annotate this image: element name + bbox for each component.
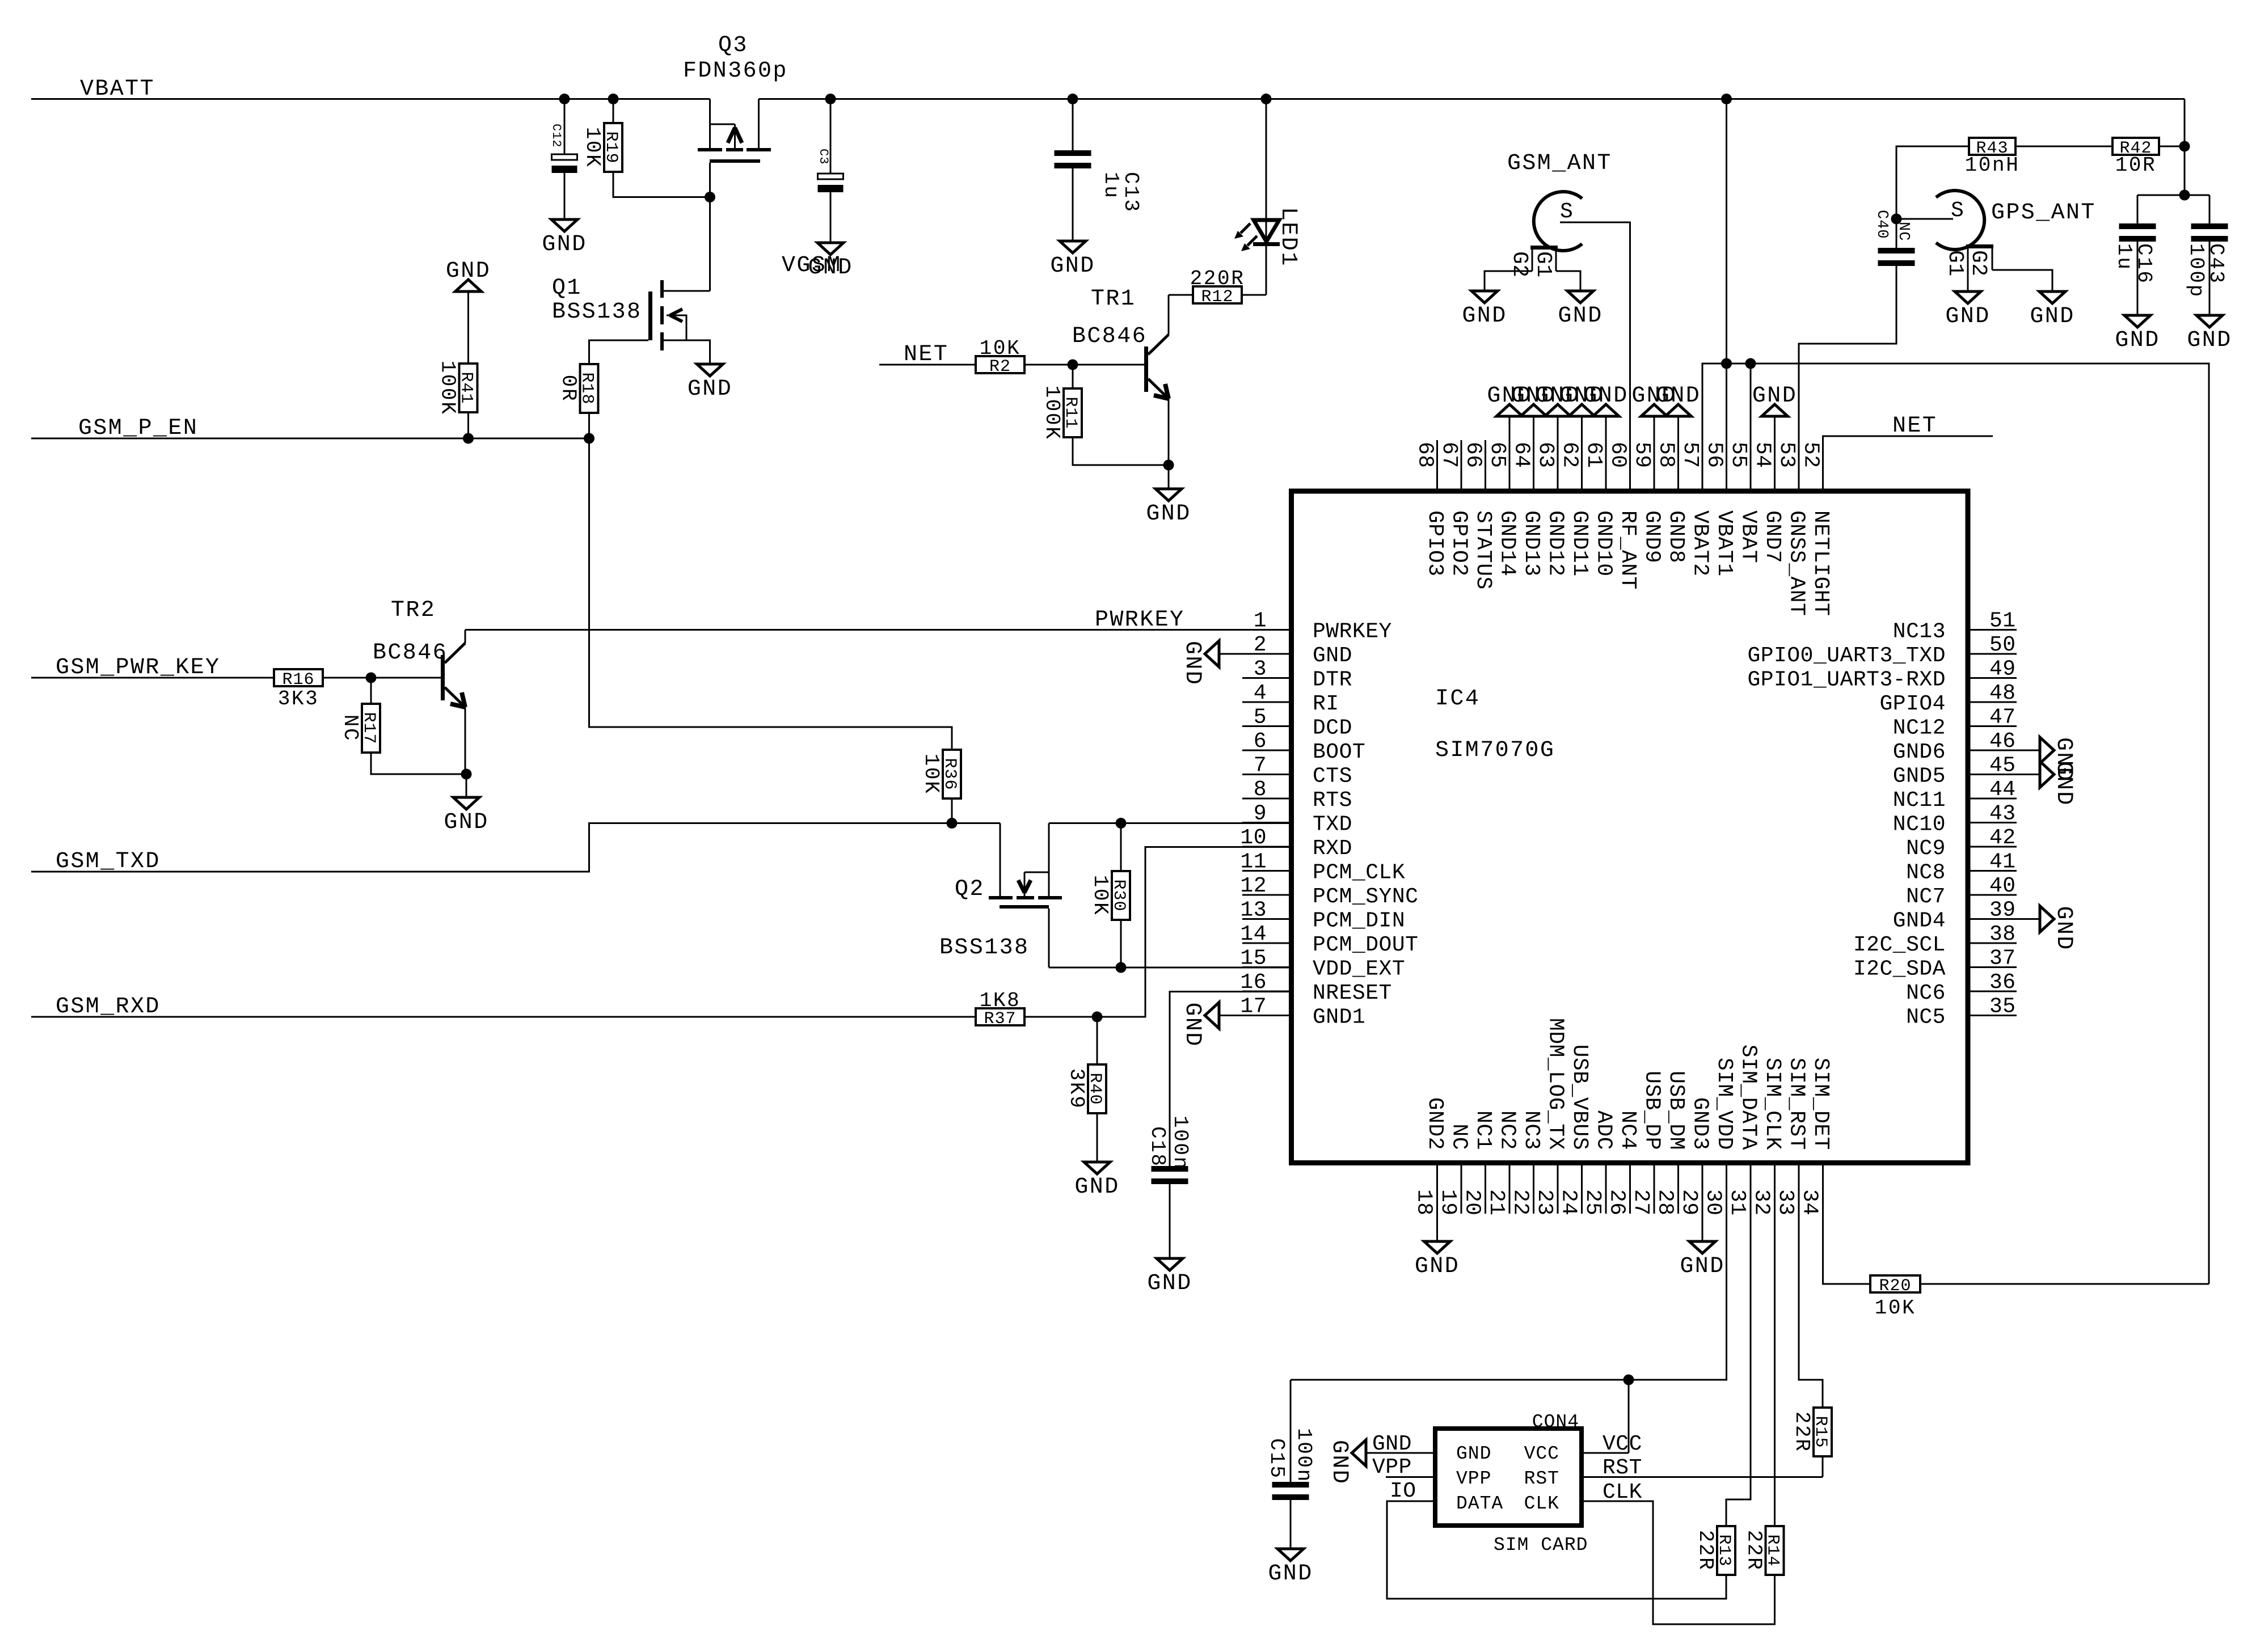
svg-text:GND9: GND9 (1640, 510, 1664, 563)
junction R37-R40 (1092, 1012, 1103, 1023)
svg-text:VDD_EXT: VDD_EXT (1313, 957, 1405, 982)
wire pin55 to VBAT line (1750, 364, 1752, 440)
ground pin 46 GND6 (right) (2017, 750, 2040, 751)
svg-text:SIM_VDD: SIM_VDD (1712, 1058, 1736, 1150)
svg-text:GSM_ANT: GSM_ANT (1507, 151, 1612, 176)
svg-text:NRESET: NRESET (1313, 981, 1392, 1005)
svg-text:I2C_SCL: I2C_SCL (1853, 933, 1946, 957)
svg-text:25: 25 (1580, 1189, 1605, 1216)
svg-text:FDN360p: FDN360p (683, 58, 788, 84)
resistor R17 (370, 678, 372, 704)
svg-text:PCM_SYNC: PCM_SYNC (1313, 885, 1418, 909)
wire GSM_ANT S to RF_ANT pin 60 (1560, 222, 1630, 440)
ground C18 (1157, 1258, 1183, 1270)
svg-text:24: 24 (1557, 1189, 1581, 1216)
antenna GSM_ANT (1534, 192, 1582, 251)
svg-text:VCC: VCC (1603, 1432, 1642, 1456)
svg-text:VBATT: VBATT (80, 77, 155, 102)
svg-text:21: 21 (1484, 1189, 1508, 1216)
svg-text:34: 34 (1798, 1189, 1822, 1216)
junction C16/C43 node (2179, 190, 2190, 201)
resistor R42 (2112, 138, 2159, 155)
svg-text:C13: C13 (1119, 172, 1142, 213)
svg-text:36: 36 (1989, 970, 2016, 995)
wire GSM_ANT G1 to ground (1556, 271, 1580, 291)
pin 28 USB_DM (IC4 bottom) (1677, 1163, 1679, 1214)
svg-text:6: 6 (1254, 729, 1267, 754)
svg-text:C3: C3 (816, 149, 830, 164)
wire VBATT drop to VBAT pins (1726, 99, 1727, 364)
resistor R20 (1870, 1275, 1920, 1292)
pin 10 RXD (IC4 left) (1242, 846, 1292, 848)
svg-text:47: 47 (1989, 705, 2016, 730)
svg-text:GND: GND (1147, 1271, 1192, 1296)
svg-text:CLK: CLK (1603, 1480, 1642, 1505)
svg-text:23: 23 (1532, 1189, 1557, 1216)
ground pin 29 GND3 (bottom) (1702, 1214, 1703, 1241)
svg-text:GND: GND (1415, 1254, 1460, 1279)
capacitor C43 (2209, 195, 2211, 223)
pin 6 BOOT (IC4 left) (1242, 750, 1292, 751)
svg-text:NC7: NC7 (1906, 885, 1946, 909)
svg-text:GND8: GND8 (1664, 510, 1688, 563)
svg-text:BC846: BC846 (373, 640, 448, 666)
ground GPS_ANT G1 (1955, 291, 1981, 303)
pin 3 DTR (IC4 left) (1242, 677, 1292, 679)
svg-text:2: 2 (1254, 633, 1267, 657)
wire TXD right segment to IC pin 9 (1049, 822, 1291, 824)
ground pin 64 (1533, 416, 1534, 440)
Q3 body arrow (710, 124, 735, 125)
svg-text:41: 41 (1989, 850, 2016, 874)
junction R2-R11-TR1 base (1068, 360, 1078, 370)
svg-text:GND: GND (1050, 253, 1095, 279)
ground pin 2 (left) (1219, 653, 1243, 655)
svg-text:22R: 22R (1743, 1530, 1766, 1571)
svg-text:8: 8 (1254, 778, 1267, 802)
pin 14 PCM_DOUT (IC4 left) (1242, 943, 1292, 944)
pin 33 SIM_RST (IC4 bottom) (1798, 1163, 1800, 1214)
svg-text:57: 57 (1678, 442, 1702, 468)
pin 48 GPIO4 (IC4 right) (1968, 702, 2017, 703)
svg-text:G2: G2 (1507, 251, 1532, 278)
pin 7 CTS (IC4 left) (1242, 774, 1292, 775)
svg-text:GND: GND (1179, 641, 1205, 686)
svg-text:BSS138: BSS138 (939, 935, 1029, 961)
svg-text:49: 49 (1989, 657, 2016, 682)
svg-text:R16: R16 (282, 670, 314, 690)
svg-text:42: 42 (1989, 826, 2016, 850)
svg-text:13: 13 (1240, 898, 1267, 923)
svg-text:TXD: TXD (1313, 813, 1352, 837)
pin 11 PCM_CLK (IC4 left) (1242, 870, 1292, 872)
svg-text:52: 52 (1799, 442, 1823, 468)
svg-text:48: 48 (1989, 681, 2016, 705)
svg-text:PCM_CLK: PCM_CLK (1313, 861, 1405, 885)
svg-text:GND: GND (1146, 501, 1191, 527)
pin 24 USB_VBUS (IC4 bottom) (1581, 1163, 1583, 1214)
svg-text:GND: GND (688, 377, 732, 402)
svg-text:SIM_RST: SIM_RST (1785, 1058, 1809, 1150)
resistor R19 (613, 99, 614, 124)
svg-text:GND: GND (1752, 383, 1797, 409)
svg-text:USB_DP: USB_DP (1640, 1071, 1664, 1150)
wire GSM_RXD (31, 1016, 975, 1018)
capacitor C18 (1170, 992, 1291, 1167)
svg-text:55: 55 (1726, 442, 1751, 468)
svg-text:5: 5 (1254, 705, 1267, 730)
svg-text:64: 64 (1509, 442, 1534, 468)
resistor R15 (1814, 1408, 1832, 1456)
ground pin 58 (1677, 416, 1679, 440)
svg-text:BOOT: BOOT (1313, 740, 1365, 764)
pin 17 GND1 (IC4 left) (1242, 1015, 1292, 1016)
resistor R43 (10nH inductor) (1896, 146, 1969, 219)
svg-text:100n: 100n (1169, 1116, 1192, 1171)
pin 63 GND12 (IC4 top) (1557, 440, 1559, 491)
svg-text:DATA: DATA (1456, 1493, 1503, 1514)
capacitor C16 (2137, 195, 2139, 223)
svg-text:NC6: NC6 (1906, 981, 1946, 1005)
svg-text:C16: C16 (2132, 243, 2156, 285)
pin 13 PCM_DIN (IC4 left) (1242, 918, 1292, 920)
pin 4 RI (IC4 left) (1242, 702, 1292, 703)
svg-text:BSS138: BSS138 (552, 299, 642, 325)
svg-text:28: 28 (1653, 1189, 1677, 1216)
svg-text:IC4: IC4 (1435, 686, 1480, 712)
svg-text:17: 17 (1240, 995, 1267, 1019)
transistor Q1 BSS138 (N-MOSFET) (648, 291, 652, 340)
ground C13 (1060, 241, 1086, 253)
svg-text:NC12: NC12 (1893, 716, 1946, 741)
pin 52 NETLIGHT (IC4 top) (1822, 440, 1824, 491)
resistor R18 (580, 364, 598, 413)
svg-text:G2: G2 (1966, 250, 1991, 277)
junction pin55 VBAT (1745, 358, 1756, 369)
svg-text:I2C_SDA: I2C_SDA (1853, 957, 1946, 982)
resistor R41 (467, 412, 469, 438)
svg-text:22R: 22R (1790, 1412, 1814, 1453)
wire Q3 gate node to Q1 drain (709, 197, 711, 291)
svg-text:14: 14 (1240, 922, 1267, 947)
capacitor C12 (564, 99, 566, 155)
svg-text:61: 61 (1582, 442, 1606, 468)
svg-text:46: 46 (1989, 729, 2016, 754)
svg-text:PWRKEY: PWRKEY (1095, 607, 1184, 633)
svg-text:R12: R12 (1201, 288, 1233, 307)
svg-text:GND7: GND7 (1760, 510, 1785, 563)
resistor R37 (976, 1008, 1024, 1025)
svg-text:10K: 10K (1089, 875, 1112, 916)
svg-text:NC: NC (339, 715, 362, 742)
svg-text:GPIO2: GPIO2 (1447, 510, 1471, 577)
svg-text:22R: 22R (1694, 1530, 1717, 1571)
ground pin 54 (GND7) (1774, 416, 1776, 440)
svg-text:STATUS: STATUS (1471, 510, 1495, 590)
svg-text:NC9: NC9 (1906, 836, 1946, 861)
pin 18 GND2 (IC4 bottom) (1436, 1163, 1438, 1214)
junction R16-R17-TR2 base (366, 673, 377, 683)
svg-text:43: 43 (1989, 802, 2016, 826)
ground pin 45 GND5 (right) (2017, 774, 2040, 775)
junction R42 node (2179, 141, 2190, 152)
connector CON4 SIM CARD body (1435, 1429, 1582, 1526)
svg-text:100K: 100K (1040, 386, 1064, 441)
svg-text:PCM_DOUT: PCM_DOUT (1313, 933, 1418, 957)
pin 68 GPIO3 (IC4 top) (1436, 440, 1438, 491)
svg-text:11: 11 (1240, 850, 1267, 874)
svg-text:58: 58 (1654, 442, 1679, 468)
junction R30-TXD (1116, 818, 1127, 829)
resistor R36 (943, 750, 961, 798)
wire GSM_P_EN (31, 438, 589, 440)
pin 38 I2C_SCL (IC4 right) (1968, 943, 2017, 944)
junction LED1-VGSM (1261, 94, 1272, 104)
junction Q3 gate node (705, 192, 715, 202)
ground TR1 emitter (1168, 465, 1170, 489)
svg-text:GND: GND (1656, 383, 1701, 409)
svg-text:BC846: BC846 (1072, 324, 1147, 349)
svg-text:GPIO1_UART3-RXD: GPIO1_UART3-RXD (1747, 668, 1946, 692)
svg-text:SIM_DET: SIM_DET (1808, 1058, 1833, 1150)
junction R30-VDD_EXT (1116, 962, 1127, 973)
svg-text:GND: GND (1313, 644, 1352, 668)
pin 53 GNSS_ANT (IC4 top) (1798, 440, 1800, 491)
svg-text:10K: 10K (1875, 1296, 1916, 1320)
svg-text:9: 9 (1254, 802, 1267, 826)
svg-text:RST: RST (1524, 1468, 1559, 1489)
svg-text:R2: R2 (989, 357, 1011, 377)
svg-text:GND: GND (2051, 906, 2076, 951)
svg-text:GND13: GND13 (1519, 510, 1544, 577)
svg-text:NC5: NC5 (1906, 1005, 1946, 1030)
capacitor C40 (NC) (1896, 219, 1897, 248)
resistor R30 (1120, 823, 1122, 872)
svg-text:39: 39 (1989, 898, 2016, 923)
svg-text:GND: GND (2030, 304, 2074, 329)
svg-text:GSM_P_EN: GSM_P_EN (78, 416, 198, 441)
wire NET stub left (879, 364, 976, 366)
ground pin 18 GND2 (bottom) (1436, 1214, 1438, 1241)
svg-text:GND: GND (446, 259, 491, 284)
wire VCC drop to CON4 (1628, 1380, 1630, 1453)
svg-text:GND: GND (1680, 1254, 1724, 1279)
pin 31 SIM_DATA (IC4 bottom) (1750, 1163, 1752, 1214)
pin 40 NC7 (IC4 right) (1968, 894, 2017, 896)
junction C13-VGSM (1068, 94, 1078, 104)
wire GPS_ANT G2 to ground (1992, 270, 2052, 291)
svg-text:PWRKEY: PWRKEY (1313, 620, 1392, 644)
svg-text:GND: GND (1372, 1432, 1412, 1456)
pin 34 SIM_DET (IC4 bottom) (1822, 1163, 1824, 1214)
pin 22 NC3 (IC4 bottom) (1533, 1163, 1534, 1214)
svg-text:59: 59 (1630, 442, 1654, 468)
svg-text:10: 10 (1240, 826, 1267, 850)
wire GSM_ANT G2 to ground (1485, 271, 1532, 291)
svg-text:54: 54 (1751, 442, 1775, 468)
wire VDD_EXT (Q2 gate to IC pin 15) (1049, 967, 1291, 969)
svg-text:12: 12 (1240, 874, 1267, 898)
svg-text:TR1: TR1 (1091, 286, 1136, 312)
svg-text:GPIO0_UART3_TXD: GPIO0_UART3_TXD (1747, 644, 1946, 668)
svg-text:27: 27 (1629, 1189, 1653, 1216)
svg-text:26: 26 (1605, 1189, 1629, 1216)
pin 56 VBAT1 (IC4 top) (1726, 440, 1727, 491)
ground GPS_ANT G2 (2039, 291, 2065, 303)
svg-text:VBAT1: VBAT1 (1712, 510, 1736, 577)
svg-text:S: S (1560, 200, 1573, 224)
svg-text:3K3: 3K3 (278, 687, 319, 711)
junction C12-VBATT (559, 94, 570, 104)
svg-text:USB_VBUS: USB_VBUS (1567, 1045, 1592, 1150)
svg-text:1u: 1u (1099, 172, 1123, 199)
transistor Q3 FDN360p (P-MOSFET) (709, 99, 711, 149)
svg-text:NC10: NC10 (1893, 813, 1946, 837)
wire SIM_RST pin33 to R15 (1799, 1214, 1823, 1408)
svg-text:100K: 100K (436, 361, 459, 416)
pin 37 I2C_SDA (IC4 right) (1968, 966, 2017, 968)
svg-text:62: 62 (1558, 442, 1582, 468)
svg-text:20: 20 (1460, 1189, 1485, 1216)
svg-text:16: 16 (1240, 970, 1267, 995)
svg-text:GND: GND (1945, 304, 1990, 329)
ground GSM_ANT G1 (1567, 291, 1593, 303)
svg-text:GND10: GND10 (1592, 510, 1616, 577)
junction R36-TXD (947, 818, 958, 829)
svg-text:NET: NET (1892, 413, 1937, 439)
svg-text:NC4: NC4 (1616, 1110, 1640, 1150)
ground pin 63 (1557, 416, 1559, 440)
svg-text:RTS: RTS (1313, 788, 1352, 813)
svg-text:SIM7070G: SIM7070G (1435, 738, 1555, 763)
junction C40-S wire (1891, 214, 1902, 225)
pin 43 NC10 (IC4 right) (1968, 822, 2017, 823)
svg-text:4: 4 (1254, 681, 1267, 705)
svg-text:GND: GND (444, 810, 488, 835)
svg-text:GND14: GND14 (1495, 510, 1520, 577)
svg-text:RF_ANT: RF_ANT (1616, 510, 1640, 590)
svg-text:GND6: GND6 (1893, 740, 1946, 764)
pin 54 GND7 (IC4 top) (1774, 440, 1776, 491)
svg-text:35: 35 (1989, 995, 2016, 1019)
svg-text:10nH: 10nH (1965, 154, 2020, 177)
ground pin 65 (1509, 416, 1511, 440)
svg-text:30: 30 (1701, 1189, 1726, 1216)
svg-text:NET: NET (904, 342, 948, 367)
svg-text:R37: R37 (984, 1009, 1016, 1029)
svg-text:GSM_RXD: GSM_RXD (56, 994, 161, 1020)
pin 46 GND6 (IC4 right) (1968, 750, 2017, 751)
svg-text:1K8: 1K8 (980, 989, 1021, 1012)
pin 44 NC11 (IC4 right) (1968, 798, 2017, 800)
pin 57 VBAT2 (IC4 top) (1702, 440, 1703, 491)
ground pin 59 (1654, 416, 1655, 440)
svg-text:GND11: GND11 (1567, 510, 1592, 577)
wire pin56 to VBAT line (1726, 364, 1727, 440)
transistor Q2 BSS138 (N-MOSFET, horizontal) (1000, 823, 1001, 897)
svg-text:GNSS_ANT: GNSS_ANT (1785, 510, 1809, 616)
svg-text:60: 60 (1606, 442, 1630, 468)
pin 15 VDD_EXT (IC4 left) (1242, 966, 1292, 968)
svg-text:ADC: ADC (1592, 1110, 1616, 1150)
pin 67 GPIO2 (IC4 top) (1461, 440, 1462, 491)
junction TR1 emitter / R11 / GND (1163, 460, 1174, 471)
pin 36 NC6 (IC4 right) (1968, 991, 2017, 992)
svg-text:53: 53 (1774, 442, 1799, 468)
svg-text:NC1: NC1 (1471, 1110, 1495, 1150)
svg-text:GPIO4: GPIO4 (1879, 692, 1946, 716)
resistor R40 (1097, 1017, 1098, 1064)
svg-text:29: 29 (1677, 1189, 1701, 1216)
resistor R14 (1766, 1526, 1784, 1575)
svg-text:IO: IO (1390, 1479, 1416, 1503)
wire GSM_PWR_KEY (31, 677, 274, 679)
pin 60 RF_ANT (IC4 top) (1629, 440, 1631, 491)
svg-text:SIM CARD: SIM CARD (1494, 1535, 1588, 1556)
wire SIM_DET pin34 to R20 (1823, 1214, 1871, 1284)
svg-text:VPP: VPP (1456, 1468, 1491, 1489)
svg-text:CLK: CLK (1524, 1493, 1559, 1514)
svg-text:65: 65 (1485, 442, 1509, 468)
junction C3-VGSM (825, 94, 836, 104)
pin 65 GND14 (IC4 top) (1509, 440, 1511, 491)
svg-text:NC: NC (1447, 1123, 1471, 1150)
wire RXD segment to IC pin 10 (1024, 847, 1291, 1017)
svg-text:15: 15 (1240, 947, 1267, 971)
capacitor C13 (1072, 99, 1074, 151)
wire VBAT line (pin57 to right edge, down to R20) (1702, 364, 2209, 1284)
wire VGSM rail (Q3 drain to right side) (759, 98, 2185, 100)
Q2 body arrow (1024, 872, 1049, 873)
pin 21 NC2 (IC4 bottom) (1509, 1163, 1511, 1214)
svg-text:GND: GND (542, 232, 587, 257)
svg-text:VPP: VPP (1372, 1455, 1412, 1480)
resistor R12 (1193, 286, 1242, 303)
ground C12 (551, 219, 577, 231)
svg-text:18: 18 (1412, 1189, 1436, 1216)
svg-text:0R: 0R (557, 375, 580, 402)
svg-text:10K: 10K (920, 754, 943, 795)
pin 66 STATUS (IC4 top) (1485, 440, 1486, 491)
pin 1 PWRKEY (IC4 left) (1242, 629, 1292, 631)
svg-text:45: 45 (1989, 754, 2016, 778)
transistor TR1 BC846 (NPN) (1144, 347, 1148, 392)
pin 5 DCD (IC4 left) (1242, 725, 1292, 727)
svg-text:GND: GND (1268, 1561, 1313, 1587)
pin DATA (CON4) wire / IO loop (1387, 1501, 1726, 1599)
svg-text:NC: NC (1895, 222, 1912, 241)
junction R41-GSM_P_EN (463, 433, 474, 444)
svg-text:GND: GND (1456, 1443, 1491, 1464)
svg-text:100p: 100p (2185, 243, 2208, 298)
svg-text:GND12: GND12 (1544, 510, 1568, 577)
svg-text:GND: GND (1074, 1174, 1119, 1200)
junction SIM VCC drop (1624, 1375, 1634, 1385)
pin 49 GPIO1_UART3-RXD (IC4 right) (1968, 677, 2017, 679)
pin 35 NC5 (IC4 right) (1968, 1015, 2017, 1016)
LED LED1 (1266, 99, 1267, 246)
capacitor C15 (1290, 1380, 1292, 1482)
svg-text:GND1: GND1 (1313, 1005, 1365, 1030)
ground C16 (2124, 315, 2150, 327)
pin 29 GND3 (IC4 bottom) (1702, 1163, 1703, 1214)
svg-text:C43: C43 (2204, 243, 2228, 285)
svg-text:100n: 100n (1292, 1428, 1315, 1483)
ground C15 (1277, 1549, 1304, 1561)
resistor R2 (976, 356, 1024, 373)
ground C3 (817, 243, 844, 255)
svg-text:DCD: DCD (1313, 716, 1352, 741)
